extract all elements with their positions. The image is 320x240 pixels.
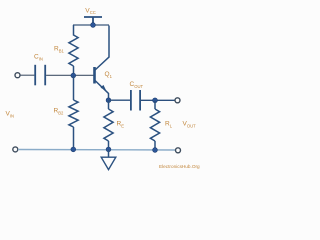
- power VCC bar: [84, 17, 102, 25]
- wire COUT to output: [141, 99, 175, 101]
- wire input to CIN: [20, 74, 34, 76]
- wire RL top lead: [154, 100, 156, 109]
- wire RE bottom lead: [108, 141, 110, 149]
- wire RB2 top lead: [73, 76, 75, 101]
- wire RL bottom lead: [154, 141, 156, 150]
- resistor RL: [150, 109, 159, 141]
- terminal bottom-left circle: [13, 147, 18, 152]
- svg-text:ElectronicsHub.Org: ElectronicsHub.Org: [159, 164, 200, 169]
- wire RE top lead: [108, 100, 110, 109]
- wire bottom rail: [18, 149, 176, 152]
- resistor RB2: [69, 100, 78, 127]
- ground: [101, 149, 116, 169]
- capacitor COUT: [131, 90, 140, 111]
- resistor RB1: [69, 35, 78, 66]
- node ground junction: [106, 147, 111, 152]
- capacitor CIN: [35, 65, 45, 86]
- wire emitter to COUT: [109, 99, 131, 101]
- node emitter junction: [106, 98, 111, 103]
- wire RB2 bottom lead: [73, 127, 75, 149]
- node RB2 bottom junction: [71, 147, 76, 152]
- wire top rail from RB1 to collector: [73, 24, 109, 26]
- transistor Q1 emitter arrow: [101, 85, 107, 91]
- wire CIN to base: [46, 74, 94, 76]
- terminal input circle: [15, 73, 20, 78]
- transistor Q1: [95, 26, 110, 101]
- node output junction: [153, 98, 158, 103]
- wire RB1 bottom lead: [73, 66, 75, 76]
- resistor RE: [104, 109, 113, 141]
- terminal output top circle: [175, 98, 180, 103]
- node VCC junction: [91, 23, 96, 28]
- node base junction: [71, 73, 76, 78]
- wire RB1 top lead: [73, 25, 75, 36]
- terminal bottom-right circle: [176, 148, 181, 153]
- node RL bottom junction: [153, 148, 158, 153]
